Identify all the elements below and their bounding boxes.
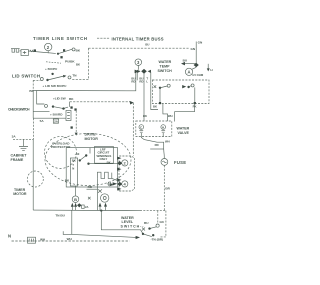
- svg-text:+ BU/RD: + BU/RD: [50, 112, 63, 116]
- svg-text:RD: RD: [155, 143, 159, 147]
- temp switch 2 drop: [194, 87, 196, 103]
- arrowhead into diamond: [135, 70, 140, 74]
- svg-text:WH: WH: [165, 140, 170, 144]
- noise filter box: [21, 50, 28, 56]
- svg-text:+ BU/PU: + BU/PU: [45, 67, 58, 71]
- svg-text:WH: WH: [40, 238, 46, 242]
- svg-text:BK: BK: [72, 159, 76, 163]
- fuse drop dashed: [163, 165, 165, 210]
- stub vertical: [89, 148, 91, 154]
- svg-text:L: L: [146, 80, 148, 84]
- arrowhead to motor: [75, 133, 78, 136]
- motor terminal box: [119, 156, 135, 191]
- junction dot on bottom line: [100, 210, 102, 212]
- svg-text:SWITCH: SWITCH: [158, 69, 173, 73]
- wire contact to terminal 2: [89, 163, 118, 165]
- lower contact dot: [142, 233, 144, 235]
- wire lid/check junction down: [37, 91, 45, 105]
- LRF circuit box: [95, 146, 114, 163]
- wire temp2 to valve: [175, 104, 195, 122]
- svg-text:GN: GN: [160, 220, 164, 224]
- wire filter to switch, hatches: [28, 50, 55, 54]
- svg-text:BK: BK: [65, 178, 70, 182]
- temp switch 2 pivot: [187, 86, 189, 88]
- terminal C arrows to bottom line: [99, 203, 102, 207]
- svg-text:MOTOR: MOTOR: [85, 137, 99, 141]
- cold solenoid: [139, 125, 144, 133]
- water level terminal: [156, 224, 159, 227]
- motor terminal circle 4: [122, 181, 128, 187]
- junction square: [34, 49, 36, 51]
- svg-text:BU: BU: [145, 42, 149, 46]
- svg-text:BU: BU: [144, 221, 149, 225]
- motor bottom terminal B: [72, 196, 79, 203]
- lower check contact wire: [33, 111, 49, 113]
- bottom wire y210: [33, 209, 140, 212]
- overload protector dashed circle: [45, 137, 77, 169]
- right riser from buss: [195, 42, 197, 66]
- arrow into diamond t4: [113, 182, 118, 185]
- svg-text:MOTOR: MOTOR: [13, 192, 27, 196]
- connector box vertical: [66, 111, 71, 121]
- wire diamond down to valve BK: [143, 73, 145, 121]
- rail to lid switch dashed: [33, 79, 40, 81]
- junction square mid: [71, 126, 73, 128]
- wire diamond to cam A: [192, 67, 196, 69]
- svg-text:WATER: WATER: [177, 126, 190, 130]
- dashed scrap below switch: [46, 62, 61, 63]
- timer line switch blade: [58, 49, 72, 54]
- water level dashed top: [140, 210, 166, 212]
- svg-text:TEMP: TEMP: [160, 65, 171, 69]
- contact diamond junction: [141, 69, 147, 74]
- svg-text:WH: WH: [168, 114, 173, 118]
- terminal B arrows to bottom line: [71, 203, 74, 207]
- second dot: [152, 234, 154, 236]
- arrowhead on dashed wire: [130, 101, 134, 105]
- svg-text:TN BU: TN BU: [55, 214, 65, 218]
- svg-text:+LID SW: +LID SW: [53, 97, 66, 101]
- stub below left arrow: [136, 72, 138, 80]
- drive motor dashed ellipse: [45, 134, 131, 186]
- svg-text:GN: GN: [191, 47, 196, 51]
- branch wire with left arrowhead: [184, 63, 196, 65]
- svg-text:N: N: [72, 166, 74, 170]
- left terminal strip box: [70, 158, 77, 186]
- svg-text:CHECK SWITCH: CHECK SWITCH: [8, 108, 30, 112]
- wire plug to noise filter: [20, 50, 21, 52]
- svg-text:N: N: [8, 234, 11, 239]
- stub below right arrow: [151, 72, 158, 109]
- check switch left terminal: [45, 104, 48, 107]
- temp switch 1 terminal: [167, 84, 170, 87]
- svg-text:BK: BK: [143, 114, 147, 118]
- start contact X: [98, 189, 102, 192]
- svg-text:BK: BK: [153, 104, 157, 108]
- left rail solid upper: [32, 90, 34, 118]
- check switch second throw square: [74, 108, 76, 110]
- svg-text:A: A: [188, 70, 191, 75]
- svg-text:FUSE: FUSE: [174, 160, 186, 165]
- svg-text:BK: BK: [69, 97, 74, 101]
- junction square bottom1: [159, 102, 161, 104]
- svg-text:PU/BK: PU/BK: [65, 60, 75, 64]
- svg-text:VALVE: VALVE: [178, 131, 190, 135]
- svg-text:-TN (BR): -TN (BR): [151, 238, 164, 242]
- blade top dot: [85, 154, 87, 156]
- timer line switch contact pivot: [57, 53, 59, 55]
- hook left: [63, 231, 72, 234]
- right contact arrow: [148, 70, 151, 73]
- svg-text:BK: BK: [29, 89, 34, 93]
- boxed label 2A: [53, 119, 58, 123]
- svg-text:TIMER LINE SWITCH: TIMER LINE SWITCH: [33, 36, 87, 41]
- centrifugal blade up: [80, 156, 86, 160]
- dashed drop to drive motor: [75, 111, 77, 133]
- plug P1 (power cord): [11, 49, 20, 53]
- left rail dashed upper: [32, 80, 34, 90]
- wire RD to drop: [87, 188, 98, 190]
- wire to water level switch: [72, 234, 137, 237]
- temp switch 2 terminal: [191, 84, 194, 87]
- svg-text:RD: RD: [139, 80, 143, 84]
- stem circle3 to contacts: [137, 66, 139, 70]
- valve outputs to fuse: [141, 133, 164, 158]
- svg-text:RD: RD: [88, 185, 93, 189]
- arrowhead: [136, 236, 140, 239]
- svg-text:BU: BU: [183, 59, 188, 63]
- x mark: [88, 197, 91, 200]
- lid switch left terminal: [40, 78, 43, 81]
- hot solenoid: [161, 125, 166, 133]
- timer motor dashed circle: [27, 171, 43, 187]
- timer cam circle 2: [45, 43, 52, 53]
- timer cam circle A: [185, 68, 192, 75]
- dashed wire to timer contact: [70, 101, 131, 103]
- pivot dot: [148, 227, 150, 229]
- fuse line dashed to switch: [160, 211, 166, 237]
- left contact arrow: [137, 70, 140, 73]
- water temp switch box dashed: [152, 80, 209, 104]
- wire check to motor riser: [37, 72, 136, 91]
- junction square above connector: [70, 106, 72, 108]
- wire rail to connector y118: [33, 117, 66, 119]
- heater stub with arrow: [207, 64, 209, 69]
- temp switch 1 x-mark: [154, 85, 157, 88]
- svg-text:BK: BK: [76, 62, 80, 66]
- svg-text:GN: GN: [198, 40, 203, 44]
- svg-text:FRAME: FRAME: [11, 158, 24, 162]
- dashed drop to motor box: [132, 103, 134, 156]
- temp switch 1 blade: [160, 86, 167, 88]
- svg-text:2A: 2A: [85, 205, 88, 209]
- wire rail jog: [33, 89, 37, 91]
- centrifugal switch pivot: [79, 159, 81, 161]
- junction drop x101: [101, 211, 143, 234]
- water level blade: [150, 227, 157, 229]
- svg-text:+ LID SW BU/PU: + LID SW BU/PU: [42, 84, 67, 88]
- svg-text:WATER: WATER: [159, 60, 172, 64]
- winding zigzag: [97, 172, 119, 182]
- buss branch to lid switch dashed: [72, 79, 89, 81]
- buss drop dashed vertical: [87, 48, 89, 79]
- small box on line: [82, 205, 85, 208]
- check switch pivot dot: [52, 105, 54, 107]
- check switch upper throw to dashed buss: [69, 102, 71, 107]
- temp switch 1 pivot: [159, 87, 161, 89]
- neutral dashed wire: [12, 240, 130, 242]
- wire temp1 to valve: [163, 104, 168, 122]
- left rail dashed mid: [32, 118, 34, 139]
- blade mid square: [63, 49, 65, 51]
- ground tap dashed: [13, 138, 33, 140]
- motor terminal circle 2: [122, 160, 128, 166]
- svg-text:+10: +10: [75, 152, 80, 156]
- neutral connector box: [28, 237, 36, 243]
- vertical drop x97.5: [97, 178, 99, 210]
- svg-text:BK: BK: [107, 161, 111, 165]
- motor outer box: [66, 148, 117, 187]
- lid switch pivot dot: [46, 79, 48, 81]
- junction diamond t2: [117, 161, 122, 165]
- svg-text:DRIVE: DRIVE: [85, 132, 97, 136]
- svg-text:SWITCH--: SWITCH--: [121, 224, 145, 228]
- motor bottom terminal C: [101, 194, 109, 202]
- check switch blade: [53, 107, 68, 109]
- left rail solid lower: [32, 140, 34, 211]
- junction diamond on line: [77, 203, 81, 207]
- junction dot: [51, 73, 53, 75]
- svg-text:BR: BR: [165, 186, 170, 190]
- svg-text:WH: WH: [67, 237, 73, 241]
- terminal circle BK: [72, 48, 75, 51]
- svg-text:B: B: [74, 197, 77, 202]
- timer cam circle 3: [135, 59, 142, 66]
- stub B to box: [75, 186, 77, 196]
- water valve box dashed: [136, 121, 172, 137]
- buss legend sample: [97, 37, 110, 39]
- temp switch 2 blade: [189, 86, 192, 87]
- x mark at switch: [142, 228, 145, 231]
- svg-text:PROTECTOR: PROTECTOR: [51, 145, 71, 149]
- junction diamond right: [194, 63, 199, 68]
- blade mid dot: [62, 107, 64, 109]
- water level dashed drop: [157, 211, 159, 224]
- start capacitor symbol: [107, 182, 112, 186]
- temp switch 2 arrow: [182, 85, 186, 88]
- junction square bottom2: [194, 102, 196, 104]
- ground symbol cabinet: [19, 139, 28, 150]
- svg-text:BK: BK: [76, 49, 81, 53]
- temp switch 1 drop: [159, 89, 161, 104]
- svg-text:INTERNAL TIMER BUSS: INTERNAL TIMER BUSS: [112, 37, 164, 42]
- svg-text:LID SWITCH: LID SWITCH: [12, 74, 40, 79]
- internal timer buss dashed: [88, 47, 189, 49]
- arrow on motor dashed bottom: [110, 183, 114, 186]
- second contact dot: [87, 163, 89, 165]
- fuse F1: [161, 159, 168, 166]
- junction diamond t4: [117, 182, 122, 186]
- terminal arrows into box: [117, 157, 121, 160]
- svg-text:RD: RD: [131, 80, 135, 84]
- lid switch right terminal: [68, 76, 71, 79]
- lower blade: [143, 234, 152, 237]
- lower throw square PU/BK: [60, 56, 62, 58]
- lid switch blade with arrow: [48, 76, 65, 80]
- motor B wire down: [71, 210, 73, 234]
- svg-text:H: H: [162, 125, 164, 129]
- svg-text:4.5 OHM: 4.5 OHM: [192, 73, 204, 77]
